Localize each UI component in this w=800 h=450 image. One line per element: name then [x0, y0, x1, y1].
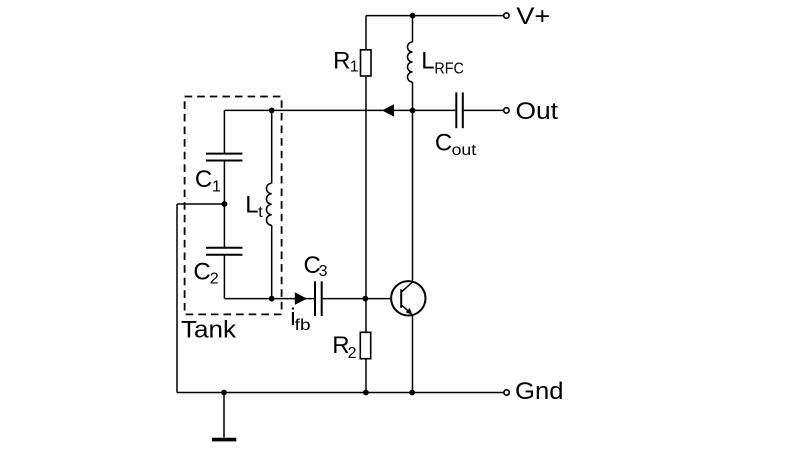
wire main vertical top [412, 16, 414, 42]
svg-text:C2: C2 [193, 258, 218, 287]
terminal Out [504, 108, 509, 113]
wire Lt top [271, 110, 273, 183]
inductor Lt [266, 183, 271, 225]
wire Cout to Out terminal [464, 109, 504, 111]
node R2 bottom [363, 390, 369, 396]
node collector out [410, 108, 416, 114]
svg-text:Out: Out [516, 98, 559, 125]
svg-text:R1: R1 [333, 47, 359, 75]
svg-text:LRFC: LRFC [421, 48, 464, 78]
transistor Q1 [391, 281, 425, 315]
wire tank tap [177, 203, 224, 205]
wire top rail V+ [366, 15, 504, 17]
capacitor C3 [315, 281, 322, 316]
wire tank bottom to C3 [224, 298, 314, 300]
terminal V+ [504, 13, 509, 18]
wire R1 branch top [365, 16, 367, 49]
capacitor C1 [206, 154, 242, 161]
ground [212, 438, 236, 442]
wire R2 to ground rail [365, 360, 367, 393]
wire emitter to ground rail [412, 315, 414, 393]
svg-text:R2: R2 [332, 332, 356, 362]
wire ground rail [177, 392, 504, 394]
svg-text:C1: C1 [195, 166, 221, 196]
svg-text:V+: V+ [516, 3, 550, 30]
wire left vertical [176, 204, 178, 393]
resistor R1 [361, 50, 372, 76]
wire C3 to base [323, 298, 392, 300]
wire LRFC to collector [412, 82, 414, 282]
arrow ifb feedback [295, 292, 307, 305]
terminal Gnd [504, 390, 509, 395]
wire C1 top [223, 110, 225, 153]
arrow toward tank (out line) [382, 104, 394, 116]
node tank tap [222, 201, 228, 207]
node emitter bottom [409, 390, 415, 396]
svg-text:Lt: Lt [245, 192, 263, 221]
resistor R2 [360, 332, 370, 358]
wire C1 to C2 [223, 161, 225, 248]
node ground stub [221, 390, 227, 396]
node tank top [269, 108, 275, 114]
wire R1 to base node [365, 77, 367, 332]
wire out line [224, 109, 455, 111]
svg-text:Cout: Cout [435, 129, 477, 159]
wire C2 to tank bottom [223, 255, 225, 299]
node LRFC top [410, 13, 416, 19]
svg-text:C3: C3 [304, 252, 328, 280]
capacitor Cout [456, 92, 463, 128]
svg-text:Tank: Tank [181, 317, 237, 344]
svg-text:ifb: ifb [290, 304, 310, 334]
inductor LRFC [408, 42, 413, 82]
svg-text:Gnd: Gnd [515, 378, 564, 405]
tank dashed box [185, 97, 282, 315]
node tank bottom [269, 296, 275, 302]
capacitor C2 [206, 248, 242, 255]
node base [362, 296, 368, 302]
wire ground stub [223, 393, 225, 438]
wire Lt bottom [271, 225, 273, 298]
